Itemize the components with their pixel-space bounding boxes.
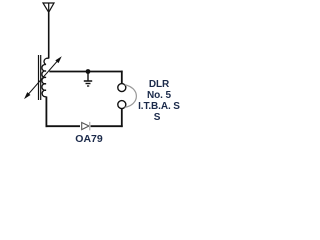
wire left vertical from coil bottom [45,97,47,128]
headphone earpiece bottom [118,101,126,109]
label DLR text block [119,79,199,123]
variable arrow [25,57,61,98]
wire from bottom earpiece down [121,109,123,128]
wire bottom left segment [46,125,81,127]
wire right vertical down to earpiece [121,71,123,84]
headphone earpiece top [118,84,126,92]
diode D1 [82,122,90,130]
wire antenna lead [48,12,50,58]
antenna [43,3,54,12]
label OA79 [58,134,120,145]
headphone band arc [125,85,137,107]
node junction dot [86,69,91,74]
wire bottom right segment [91,125,123,127]
inductor L1 (tuning coil) [42,58,49,97]
wire top (tap to headphones) [49,71,122,73]
transformer core [39,55,41,100]
ground [84,72,92,87]
